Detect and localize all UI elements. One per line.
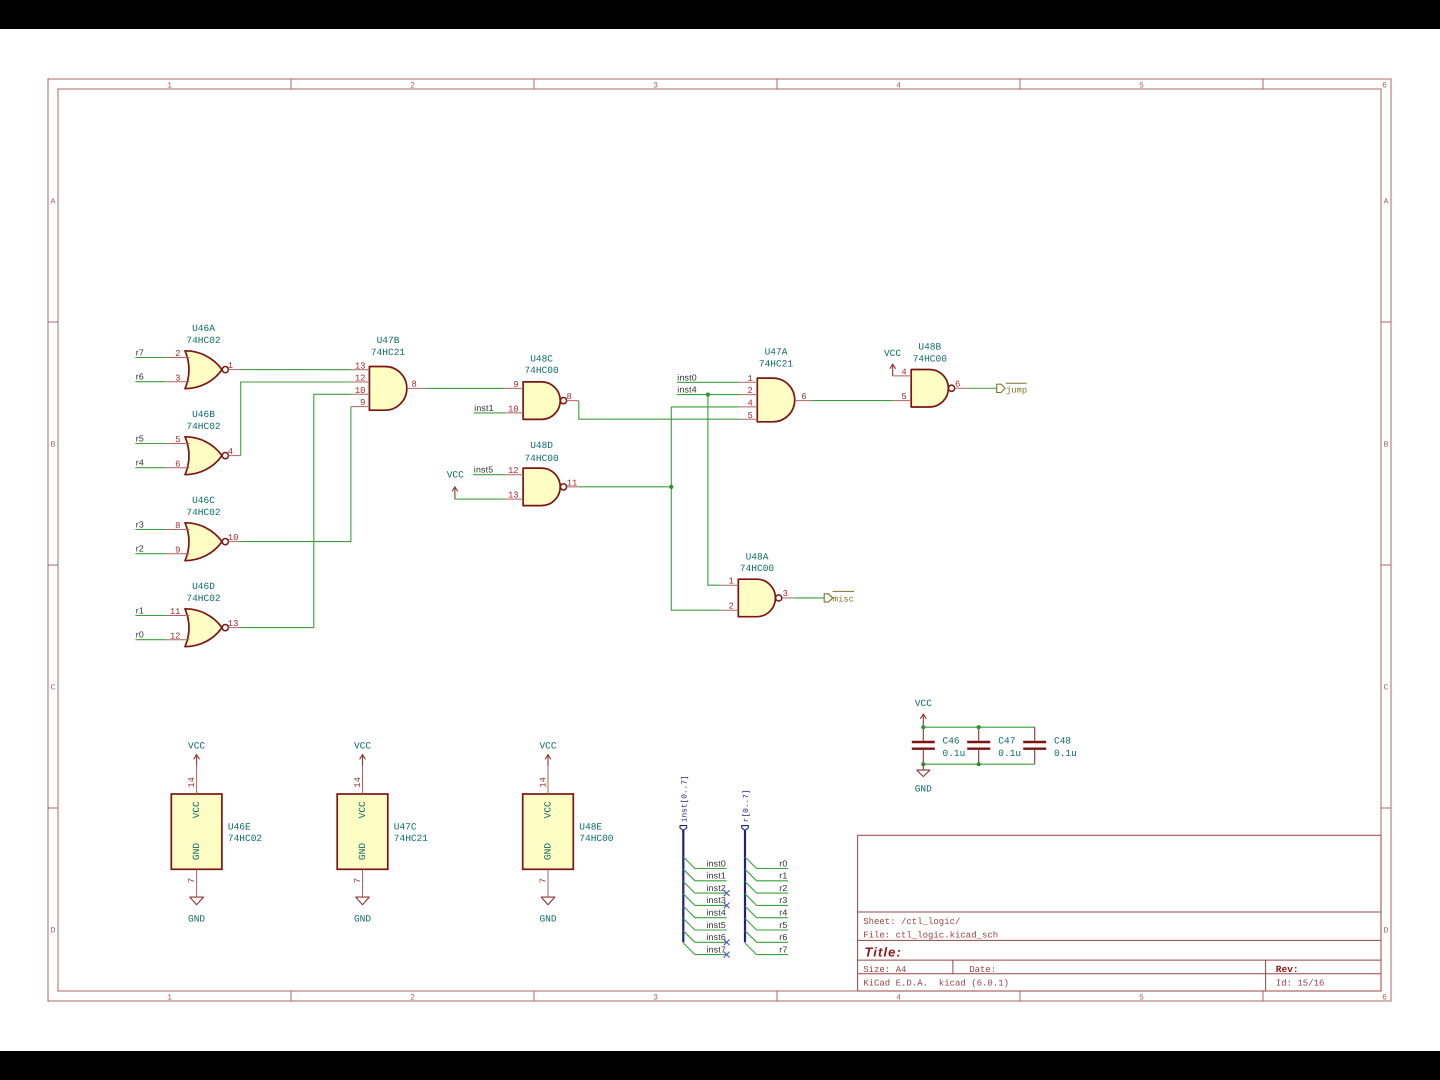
svg-text:VCC: VCC: [884, 348, 901, 359]
svg-text:3: 3: [653, 82, 658, 91]
wire r4 to U46B pin 6: [135, 467, 165, 469]
wire r6: [757, 941, 788, 943]
U46A input pin 3: [166, 373, 190, 383]
svg-text:U46A: U46A: [192, 323, 215, 334]
U47B input pin 13: [351, 361, 370, 371]
svg-text:Sheet: /ctl_logic/: Sheet: /ctl_logic/: [863, 917, 960, 927]
net label inst5: [706, 920, 726, 930]
svg-text:74HC00: 74HC00: [740, 563, 775, 574]
power symbol VCC at U47C pin 14: [354, 741, 371, 766]
svg-text:r7: r7: [136, 348, 144, 358]
svg-text:r2: r2: [136, 544, 144, 554]
wire inst3: [695, 904, 727, 906]
svg-text:2: 2: [747, 386, 752, 396]
svg-text:inst4: inst4: [706, 908, 726, 918]
svg-text:U46C: U46C: [192, 495, 215, 506]
wire U46B out to U47B pin 12: [241, 382, 351, 456]
svg-text:U46B: U46B: [192, 409, 215, 420]
svg-text:74HC02: 74HC02: [186, 335, 221, 346]
svg-text:misc: misc: [833, 594, 854, 604]
svg-text:3: 3: [653, 994, 658, 1003]
svg-text:5: 5: [175, 435, 180, 445]
svg-text:74HC21: 74HC21: [759, 358, 794, 369]
net label inst0: [706, 858, 726, 868]
junction caps: [921, 725, 981, 766]
net label r2: [136, 544, 144, 554]
svg-text:inst2: inst2: [706, 883, 726, 893]
svg-text:0.1u: 0.1u: [943, 748, 966, 759]
svg-text:VCC: VCC: [188, 741, 205, 752]
power symbol GND at U46E pin 7: [188, 897, 205, 924]
svg-text:r6: r6: [136, 372, 144, 382]
U47B input pin 12: [351, 374, 370, 384]
U48C input pin 10: [505, 404, 523, 414]
svg-text:KiCad E.D.A. kicad (6.0.1): KiCad E.D.A. kicad (6.0.1): [863, 978, 1009, 988]
svg-text:r5: r5: [779, 920, 787, 930]
U47A input pin 4: [739, 399, 758, 409]
svg-text:3: 3: [783, 589, 788, 599]
U46B input pin 5: [166, 435, 190, 445]
wire r4: [757, 917, 788, 919]
svg-text:74HC02: 74HC02: [186, 593, 221, 604]
nand gate U48C 74HC00: [523, 354, 567, 420]
bus entry inst0: [683, 857, 695, 869]
svg-text:2: 2: [410, 82, 415, 91]
svg-text:U48B: U48B: [918, 342, 941, 353]
junction inst4: [706, 393, 710, 397]
svg-text:7: 7: [353, 878, 363, 883]
wire VCC to U48D pin 13: [455, 498, 505, 500]
svg-text:inst3: inst3: [706, 895, 726, 905]
svg-text:GND: GND: [539, 913, 556, 924]
svg-text:4: 4: [901, 367, 906, 377]
wire inst7: [695, 954, 727, 956]
svg-text:10: 10: [508, 404, 519, 414]
svg-text:inst7: inst7: [706, 944, 726, 954]
wire U48A out to misc label: [793, 597, 824, 599]
power symbol GND at caps: [915, 764, 932, 795]
svg-text:VCC: VCC: [539, 741, 556, 752]
U46B output pin 4: [228, 447, 241, 457]
U46B input pin 6: [166, 459, 190, 469]
net label r7: [136, 348, 144, 358]
svg-text:1: 1: [167, 994, 172, 1003]
U47A output pin 6: [795, 392, 813, 402]
svg-text:inst5: inst5: [706, 920, 726, 930]
svg-text:13: 13: [355, 361, 366, 371]
wire r7: [757, 954, 788, 956]
power symbol GND at U48E pin 7: [539, 897, 556, 924]
svg-text:C46: C46: [943, 735, 960, 746]
svg-text:A: A: [1384, 198, 1389, 207]
net label r5: [779, 920, 787, 930]
svg-text:VCC: VCC: [357, 801, 368, 818]
wire U48D out to junction: [579, 486, 672, 488]
svg-text:Date:: Date:: [969, 965, 996, 975]
wire caps top rail: [923, 726, 1034, 728]
bus entry inst4: [683, 906, 695, 918]
svg-text:9: 9: [360, 398, 365, 408]
U48B input pin 5: [893, 392, 912, 402]
svg-text:1: 1: [747, 374, 752, 384]
bus entry inst7: [683, 943, 695, 955]
svg-text:GND: GND: [188, 913, 205, 924]
svg-text:6: 6: [801, 392, 806, 402]
power unit U47C 74HC21: [337, 794, 428, 869]
svg-text:inst6: inst6: [706, 932, 726, 942]
wire r7 to U46A pin 2: [135, 357, 165, 359]
net label inst2: [706, 883, 726, 893]
svg-text:VCC: VCC: [191, 801, 202, 818]
net label r2: [779, 883, 787, 893]
no-connect inst6: [724, 939, 730, 945]
wire r2: [757, 892, 788, 894]
U47B output pin 8: [407, 380, 425, 390]
svg-text:8: 8: [175, 521, 180, 531]
svg-text:4: 4: [896, 82, 901, 91]
svg-text:6: 6: [175, 459, 180, 469]
U47B input pin 9: [351, 398, 370, 408]
U46C input pin 9: [166, 545, 190, 555]
wire U48C out to U47A pin 5: [579, 401, 739, 420]
wire inst6: [695, 941, 727, 943]
U47C pin 7: [353, 869, 363, 897]
svg-text:C48: C48: [1054, 735, 1071, 746]
svg-text:U47B: U47B: [377, 335, 400, 346]
bus entry r1: [745, 869, 757, 881]
svg-text:Size: A4: Size: A4: [863, 965, 906, 975]
wire U47B out to U48C pin 9: [425, 387, 505, 389]
svg-text:GND: GND: [543, 843, 554, 860]
svg-text:13: 13: [508, 491, 519, 501]
net label inst7: [706, 944, 726, 954]
net label inst6: [706, 932, 726, 942]
svg-text:inst1: inst1: [706, 871, 726, 881]
svg-text:Title:: Title:: [865, 945, 902, 960]
svg-text:6: 6: [1382, 994, 1387, 1003]
svg-text:GND: GND: [357, 843, 368, 860]
net label inst4: [706, 908, 726, 918]
svg-text:B: B: [51, 441, 56, 450]
nor gate U46D 74HC02: [185, 581, 228, 647]
svg-text:VCC: VCC: [354, 741, 371, 752]
svg-text:U47C: U47C: [394, 821, 417, 832]
power symbol VCC at U48B pin 4: [884, 348, 901, 376]
svg-text:A: A: [51, 198, 56, 207]
power symbol VCC at U46E pin 14: [188, 741, 205, 766]
svg-text:3: 3: [175, 373, 180, 383]
U46D input pin 12: [166, 631, 190, 641]
svg-text:6: 6: [955, 380, 960, 390]
net label inst4: [677, 385, 697, 395]
svg-text:4: 4: [896, 994, 901, 1003]
bus entry r5: [745, 918, 757, 930]
bus inst[0..7]: [682, 830, 684, 942]
power unit U48E 74HC00: [523, 794, 614, 869]
svg-text:5: 5: [901, 392, 906, 402]
wire r0 to U46D pin 12: [135, 639, 165, 641]
svg-text:inst0: inst0: [677, 372, 697, 382]
svg-text:C47: C47: [998, 735, 1015, 746]
svg-text:U48C: U48C: [530, 354, 553, 365]
svg-text:VCC: VCC: [543, 801, 554, 818]
U48E pin 14: [539, 766, 549, 794]
svg-text:13: 13: [228, 619, 239, 629]
bus entry r7: [745, 943, 757, 955]
svg-text:5: 5: [747, 411, 752, 421]
U46D input pin 11: [166, 607, 190, 617]
svg-text:r5: r5: [136, 434, 144, 444]
svg-text:r1: r1: [136, 606, 144, 616]
svg-text:Rev:: Rev:: [1276, 964, 1299, 975]
svg-text:File: ctl_logic.kicad_sch: File: ctl_logic.kicad_sch: [863, 931, 998, 941]
wire U46C out to U47B pin 9: [241, 407, 351, 542]
wire U47A out to U48B pin 5: [813, 400, 893, 402]
power symbol VCC at U48D pin 13: [447, 470, 464, 500]
svg-text:U48A: U48A: [746, 552, 769, 563]
hierarchical label r[0..7]: [742, 789, 751, 830]
net label r3: [136, 520, 144, 530]
svg-text:2: 2: [175, 349, 180, 359]
svg-text:8: 8: [567, 392, 572, 402]
wire caps bottom rail: [923, 763, 1034, 765]
net label r5: [136, 434, 144, 444]
U47A input pin 1: [739, 374, 758, 384]
svg-text:U46E: U46E: [228, 821, 251, 832]
svg-text:74HC00: 74HC00: [913, 353, 948, 364]
svg-text:0.1u: 0.1u: [1054, 748, 1077, 759]
U47C pin 14: [353, 766, 363, 794]
svg-text:VCC: VCC: [447, 470, 464, 481]
net label inst1: [706, 871, 726, 881]
wire inst0: [695, 868, 727, 870]
svg-text:inst1: inst1: [474, 403, 494, 413]
svg-text:74HC02: 74HC02: [186, 421, 221, 432]
U48C output pin 8: [567, 392, 579, 402]
svg-text:74HC00: 74HC00: [579, 833, 614, 844]
power symbol GND at U47C pin 7: [354, 897, 371, 924]
svg-text:1: 1: [167, 82, 172, 91]
svg-text:7: 7: [187, 878, 197, 883]
net label inst5: [474, 465, 494, 475]
svg-text:r0: r0: [779, 858, 787, 868]
capacitor C47 0.1u: [967, 727, 1021, 764]
and gate U47B 74HC21: [369, 335, 406, 410]
wire inst4 down to U48A pin 1: [708, 395, 720, 586]
net label r7: [779, 944, 787, 954]
svg-text:74HC02: 74HC02: [228, 833, 263, 844]
no-connect inst7: [724, 952, 730, 958]
U46A output pin 1: [228, 361, 241, 371]
capacitor C46 0.1u: [912, 727, 966, 764]
svg-text:r2: r2: [779, 883, 787, 893]
svg-text:inst0: inst0: [706, 858, 726, 868]
U47B input pin 10: [351, 386, 370, 396]
U48A input pin 2: [720, 602, 739, 612]
svg-text:U47A: U47A: [765, 347, 788, 358]
svg-text:inst4: inst4: [677, 385, 697, 395]
svg-text:12: 12: [508, 466, 519, 476]
net label r1: [136, 606, 144, 616]
svg-text:1: 1: [228, 361, 233, 371]
wire U46A out to U47B pin 13: [241, 369, 351, 371]
svg-text:GND: GND: [191, 843, 202, 860]
bus entry inst1: [683, 869, 695, 881]
net label r3: [779, 895, 787, 905]
wire inst0 to U47A pin 1: [677, 381, 739, 383]
U47A input pin 5: [739, 411, 758, 421]
power symbol VCC at U48E pin 14: [539, 741, 556, 766]
svg-text:12: 12: [170, 631, 181, 641]
net label r6: [136, 372, 144, 382]
svg-text:inst5: inst5: [474, 465, 494, 475]
U48D input pin 13: [505, 491, 523, 501]
capacitor C48 0.1u: [1023, 727, 1077, 764]
wire r3 to U46C pin 8: [135, 529, 165, 531]
svg-text:GND: GND: [354, 913, 371, 924]
svg-text:8: 8: [412, 380, 417, 390]
svg-text:Id: 15/16: Id: 15/16: [1276, 978, 1325, 988]
bus entry inst2: [683, 882, 695, 894]
hierarchical label inst[0..7]: [680, 775, 689, 830]
bus entry inst5: [683, 918, 695, 930]
svg-text:10: 10: [355, 386, 366, 396]
svg-text:U46D: U46D: [192, 581, 215, 592]
wire r1 to U46D pin 11: [135, 615, 165, 617]
net label r0: [136, 630, 144, 640]
svg-text:4: 4: [747, 399, 752, 409]
svg-text:r7: r7: [779, 944, 787, 954]
hierarchical label misc: [824, 591, 854, 604]
nor gate U46C 74HC02: [185, 495, 228, 561]
U48A input pin 1: [720, 577, 739, 587]
U48E pin 7: [539, 869, 549, 897]
net label r6: [779, 932, 787, 942]
wire inst4 to U47A pin 2: [677, 394, 739, 396]
U48D output pin 11: [567, 478, 579, 488]
wire inst2: [695, 892, 727, 894]
U48B input pin 4: [893, 367, 912, 377]
bus entry inst3: [683, 894, 695, 906]
svg-text:r4: r4: [136, 458, 144, 468]
U46C input pin 8: [166, 521, 190, 531]
svg-text:74HC00: 74HC00: [524, 453, 559, 464]
U46D output pin 13: [228, 619, 241, 629]
U48B output pin 6: [955, 380, 967, 390]
no-connect inst3: [724, 903, 730, 909]
wire r6 to U46A pin 3: [135, 381, 165, 383]
U46E pin 14: [187, 766, 197, 794]
svg-text:C: C: [1384, 684, 1389, 693]
nand gate U48B 74HC00: [911, 342, 955, 408]
svg-text:6: 6: [1382, 82, 1387, 91]
wire U48B out to jump label: [967, 387, 997, 389]
svg-text:2: 2: [410, 994, 415, 1003]
svg-text:U48D: U48D: [530, 440, 553, 451]
wire r3: [757, 904, 788, 906]
net label r1: [779, 871, 787, 881]
U48C input pin 9: [505, 380, 523, 390]
wire r5 to U46B pin 5: [135, 443, 165, 445]
and gate U47A 74HC21: [757, 347, 794, 422]
svg-text:VCC: VCC: [915, 698, 932, 709]
U46C output pin 10: [228, 533, 241, 543]
power unit U46E 74HC02: [171, 794, 262, 869]
svg-text:D: D: [51, 927, 56, 936]
wire inst1: [695, 880, 727, 882]
svg-text:74HC21: 74HC21: [394, 833, 429, 844]
bus entry r3: [745, 894, 757, 906]
wire r0: [757, 868, 788, 870]
U47A input pin 2: [739, 386, 758, 396]
bus entry r0: [745, 857, 757, 869]
svg-text:74HC21: 74HC21: [371, 347, 406, 358]
net label r4: [136, 458, 144, 468]
U48A output pin 3: [782, 589, 793, 599]
svg-text:D: D: [1384, 927, 1389, 936]
nand gate U48A 74HC00: [738, 552, 782, 617]
svg-text:9: 9: [513, 380, 518, 390]
svg-text:12: 12: [355, 374, 366, 384]
bus entry r6: [745, 931, 757, 943]
U46A input pin 2: [166, 349, 190, 359]
wire r1: [757, 880, 788, 882]
svg-text:U48E: U48E: [579, 821, 602, 832]
svg-text:r1: r1: [779, 871, 787, 881]
svg-text:r3: r3: [136, 520, 144, 530]
net label inst3: [706, 895, 726, 905]
svg-text:14: 14: [539, 777, 549, 788]
svg-text:inst[0..7]: inst[0..7]: [680, 775, 689, 822]
hierarchical label jump: [997, 383, 1027, 395]
svg-text:r6: r6: [779, 932, 787, 942]
svg-text:14: 14: [353, 777, 363, 788]
svg-text:5: 5: [1139, 994, 1144, 1003]
wire inst1 to U48C pin 10: [474, 412, 505, 414]
title block: [858, 835, 1381, 991]
svg-text:C: C: [51, 684, 56, 693]
svg-text:jump: jump: [1006, 385, 1027, 395]
svg-text:14: 14: [187, 777, 197, 788]
wire U46D out to U47B pin 10: [241, 394, 351, 627]
bus entry inst6: [683, 931, 695, 943]
wire inst4: [695, 917, 727, 919]
svg-text:r3: r3: [779, 895, 787, 905]
svg-text:74HC00: 74HC00: [524, 365, 559, 376]
svg-text:r[0..7]: r[0..7]: [742, 789, 751, 822]
nor gate U46B 74HC02: [185, 409, 228, 475]
svg-text:11: 11: [567, 478, 578, 488]
U48D input pin 12: [505, 466, 523, 476]
bus r[0..7]: [744, 830, 746, 942]
wire r2 to U46C pin 9: [135, 553, 165, 555]
net label r0: [779, 858, 787, 868]
nand gate U48D 74HC00: [523, 440, 567, 506]
net label inst0: [677, 372, 697, 382]
wire r5: [757, 929, 788, 931]
svg-text:GND: GND: [915, 784, 932, 795]
svg-text:10: 10: [228, 533, 239, 543]
wire U48D net to U47A pin 4: [671, 407, 739, 610]
power symbol VCC at caps: [915, 698, 932, 727]
svg-text:r0: r0: [136, 630, 144, 640]
svg-text:11: 11: [170, 607, 181, 617]
wire inst5 to U48D pin 12: [473, 474, 505, 476]
junction U48D out net: [669, 485, 673, 489]
svg-text:1: 1: [728, 577, 733, 587]
wire inst5: [695, 929, 727, 931]
svg-text:2: 2: [728, 602, 733, 612]
